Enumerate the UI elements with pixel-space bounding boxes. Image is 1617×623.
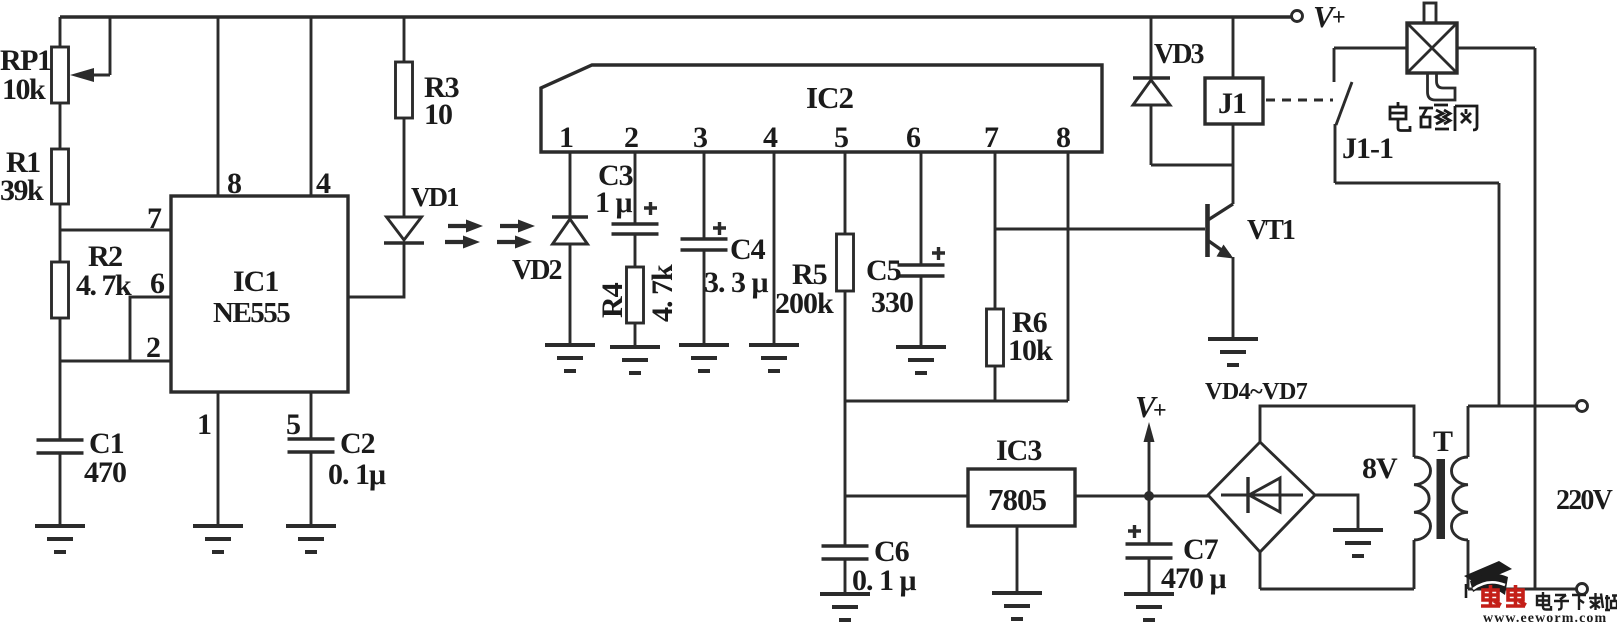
svg-text:+: +: [1153, 398, 1167, 424]
svg-text:1 μ: 1 μ: [595, 186, 633, 219]
svg-text:8V: 8V: [1362, 452, 1398, 485]
potentiometer RP1: [0, 17, 110, 149]
ground C5: [896, 347, 946, 373]
capacitor C4: [681, 152, 769, 345]
svg-text:4. 7k: 4. 7k: [76, 269, 132, 302]
svg-text:VT1: VT1: [1247, 215, 1295, 246]
resistor R3: [396, 17, 459, 131]
wire pin6 to pin2 link: [60, 297, 171, 361]
relay coil J1: [1205, 17, 1263, 204]
svg-text:IC2: IC2: [806, 80, 853, 115]
svg-text:T: T: [1433, 425, 1453, 458]
wire bottom rail R5 R6 pin8: [845, 400, 1068, 403]
wire IC1 output: [348, 243, 404, 297]
svg-text:J1-1: J1-1: [1342, 132, 1393, 165]
svg-text:NE555: NE555: [213, 297, 290, 329]
transformer T primary winding: [1452, 457, 1469, 540]
wire IC2 pin4 to ground: [773, 152, 776, 345]
svg-text:J1: J1: [1218, 87, 1246, 120]
svg-text:2: 2: [624, 121, 639, 154]
wire valve to right drop: [1457, 47, 1535, 50]
svg-text:330: 330: [871, 286, 913, 319]
resistor R1: [0, 146, 69, 262]
svg-text:6: 6: [150, 267, 165, 300]
svg-text:7: 7: [984, 121, 999, 154]
ground VD2: [545, 345, 595, 371]
wire bridge bottom to transformer: [1260, 540, 1414, 589]
wire base from IC2 pin7: [995, 228, 1205, 231]
svg-text:39k: 39k: [0, 174, 44, 207]
svg-text:470 μ: 470 μ: [1161, 562, 1227, 595]
svg-text:5: 5: [286, 408, 301, 441]
ground VT1: [1208, 339, 1258, 365]
ground IC1 pin1: [193, 526, 243, 552]
svg-text:8: 8: [1056, 121, 1071, 154]
svg-text:1: 1: [197, 408, 212, 441]
V+ arrow node: [1135, 389, 1167, 496]
watermark logo cap: [1464, 561, 1512, 598]
ground C4: [679, 345, 729, 371]
terminal 220V top: [1577, 401, 1588, 412]
svg-text:4. 7k: 4. 7k: [646, 264, 679, 322]
ground C7: [1124, 594, 1174, 620]
watermark 电子下载站: [1537, 592, 1617, 610]
svg-text:VD4~VD7: VD4~VD7: [1205, 379, 1308, 405]
svg-text:10k: 10k: [2, 73, 46, 106]
capacitor C7: [1126, 496, 1227, 595]
capacitor C1: [37, 427, 127, 526]
ground bridge: [1333, 530, 1383, 556]
svg-text:7: 7: [147, 202, 162, 235]
svg-text:6: 6: [906, 121, 921, 154]
svg-text:0. 1μ: 0. 1μ: [328, 458, 386, 491]
svg-text:3: 3: [693, 121, 708, 154]
wire bridge top to transformer secondary: [1260, 406, 1414, 457]
wire IC1 pin4: [310, 17, 313, 196]
svg-text:www.eeworm.com: www.eeworm.com: [1483, 611, 1607, 623]
capacitor C3: [595, 152, 659, 267]
capacitor C2: [288, 392, 387, 526]
svg-text:R4: R4: [596, 282, 629, 318]
svg-text:IC1: IC1: [233, 265, 278, 298]
svg-text:200k: 200k: [775, 287, 834, 320]
wire bridge right to ground: [1315, 495, 1358, 530]
svg-text:10: 10: [424, 98, 452, 131]
svg-text:VD2: VD2: [512, 255, 561, 286]
svg-text:C2: C2: [340, 427, 375, 460]
resistor R4: [596, 264, 679, 347]
svg-text:2: 2: [146, 331, 161, 364]
svg-text:8: 8: [227, 167, 242, 200]
wire IC1 pin1: [217, 392, 220, 526]
capacitor C5: [866, 152, 945, 347]
svg-text:+: +: [1332, 5, 1346, 31]
terminal V+ top: [1292, 0, 1346, 34]
svg-text:VD3: VD3: [1154, 39, 1204, 70]
dashed link J1 to J1-1: [1266, 99, 1333, 102]
ground C2: [286, 526, 336, 552]
svg-text:C4: C4: [730, 233, 766, 266]
resistor R5: [775, 152, 854, 496]
svg-text:VD1: VD1: [411, 182, 459, 212]
svg-text:220V: 220V: [1556, 485, 1613, 516]
svg-text:7805: 7805: [988, 482, 1047, 517]
transformer T core: [1433, 425, 1453, 539]
wire IC2 pin8 down: [1067, 152, 1070, 401]
diode VD3: [1133, 17, 1233, 165]
svg-text:10k: 10k: [1008, 334, 1053, 367]
wire right drop to bottom: [1534, 48, 1537, 589]
ground IC3: [992, 593, 1042, 619]
svg-text:3. 3 μ: 3. 3 μ: [704, 266, 769, 299]
switch J1-1: [1334, 48, 1499, 183]
terminal 220V bottom: [1577, 584, 1588, 595]
wire top V+ rail: [60, 15, 1291, 18]
IC U3 IC3 7805: [845, 434, 1208, 593]
label 电磁阀: [1390, 102, 1477, 131]
transformer T secondary winding 8V: [1362, 452, 1431, 540]
IC U2 IC2: [541, 65, 1102, 154]
ground R4: [610, 347, 660, 373]
IC U1 IC1 NE555: [146, 167, 348, 441]
wire switch drop to 220V top: [1498, 183, 1501, 406]
diode VD1: [384, 118, 459, 243]
svg-text:4: 4: [763, 121, 778, 154]
svg-text:5: 5: [834, 121, 849, 154]
photodiode VD2: [512, 152, 588, 345]
resistor R2: [52, 240, 133, 440]
ground C1: [35, 526, 85, 552]
solenoid valve symbol: [1407, 3, 1457, 100]
svg-text:C5: C5: [866, 254, 901, 287]
svg-text:470: 470: [84, 456, 126, 489]
resistor R6: [987, 152, 1054, 401]
watermark 虫虫 red: [1481, 585, 1526, 606]
svg-text:IC3: IC3: [996, 434, 1041, 467]
optical coupling arrows: [445, 220, 535, 249]
node junction V+: [1144, 491, 1154, 501]
wire IC1 pin8: [217, 17, 220, 196]
transistor VT1: [1208, 204, 1295, 339]
wire primary top to terminal: [1468, 406, 1576, 457]
ground IC2 pin4: [749, 345, 799, 371]
svg-text:1: 1: [559, 121, 574, 154]
capacitor C6: [822, 496, 917, 597]
svg-text:4: 4: [316, 167, 331, 200]
wire node pin7: [60, 229, 171, 232]
ground C6: [820, 594, 870, 620]
wire bridge output left (to V+ node): [1207, 494, 1210, 497]
wire primary bottom to terminal: [1468, 540, 1576, 589]
bridge rectifier VD4~VD7: [1205, 379, 1315, 552]
wire switch to valve: [1334, 47, 1407, 50]
